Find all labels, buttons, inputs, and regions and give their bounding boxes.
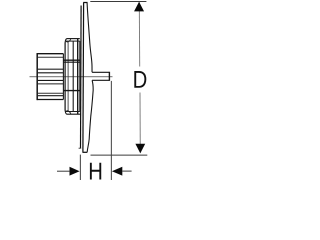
D bottom extension line (91, 154, 148, 156)
H left extension line (79, 155, 81, 180)
D dimension line lower (139, 93, 141, 145)
nut top-left corner arc (65, 39, 67, 43)
nut bottom-left corner arc (65, 110, 67, 114)
H left arrow (70, 167, 80, 176)
thread lines (38, 57, 64, 95)
disc front silhouette upper (87, 3, 92, 72)
disc front silhouette lower (87, 80, 93, 152)
D dimension line upper (138, 2, 140, 66)
disc back face (80, 6, 83, 149)
label H (90, 163, 101, 180)
wire nut top outer edge (67, 38, 80, 40)
wire nut bottom outer edge (67, 113, 81, 115)
wire nut left edge (64, 43, 66, 111)
thread cylinder outline (37, 53, 64, 100)
wire thread top edge (37, 53, 64, 55)
D top extension line (90, 1, 146, 3)
centerline (30, 76, 113, 78)
neck edge lines (63, 60, 79, 90)
disc rim left border (82, 3, 85, 152)
stub pipe (92, 72, 109, 81)
disc rim top cap (83, 2, 87, 4)
H left tail (57, 170, 70, 172)
wire nut face line 2 (72, 41, 74, 111)
nut bottom chamfer wave (66, 111, 71, 114)
collar nut body (63, 39, 80, 115)
wire left edge of thread (36, 53, 38, 100)
D arrow down (135, 144, 145, 154)
disc back face bottom tick (79, 147, 82, 149)
D arrow up (134, 2, 144, 12)
wire nut top inner edge (66, 40, 80, 42)
disc rim bottom cap (82, 151, 87, 153)
nut top chamfer wave (66, 39, 71, 42)
label D (134, 71, 146, 88)
wire nut face line 1 (67, 41, 69, 111)
wire nut bottom inner edge (66, 111, 80, 113)
H right arrow (112, 167, 122, 176)
H right tail (122, 170, 131, 172)
H right extension line (110, 81, 112, 180)
wire thread bottom edge (37, 99, 64, 101)
wire nut right edge (77, 39, 79, 115)
wire thread end edge (62, 54, 64, 100)
wire plate line (79, 41, 81, 111)
